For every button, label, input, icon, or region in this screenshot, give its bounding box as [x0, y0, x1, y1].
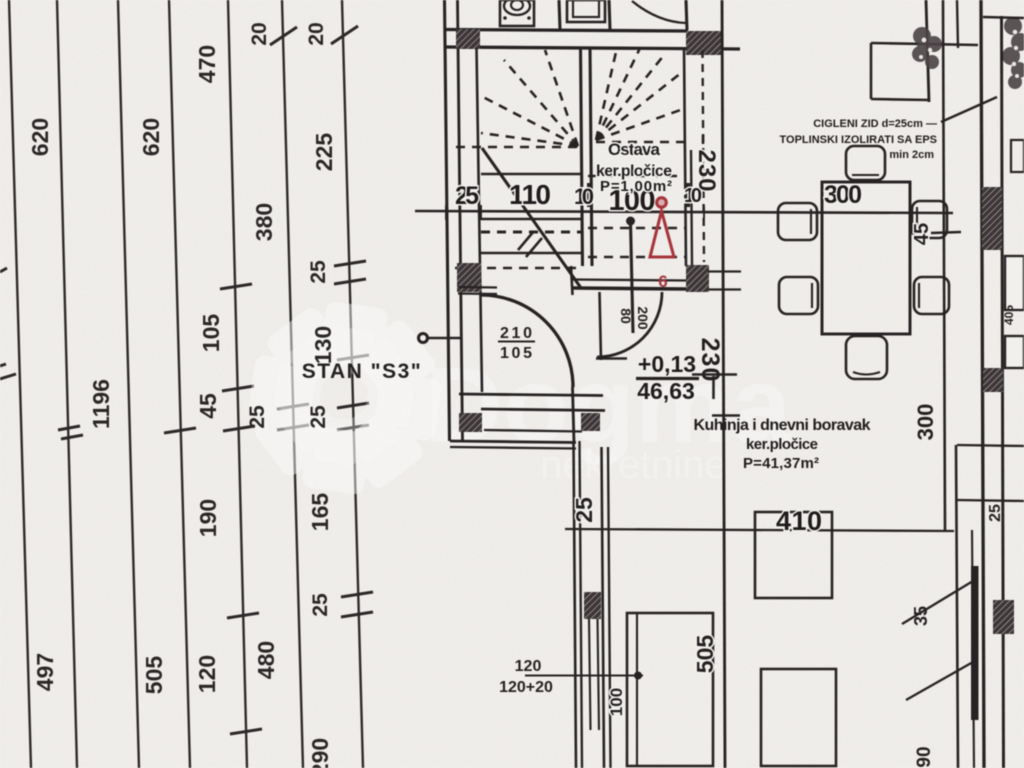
- terrace top line: [871, 43, 978, 45]
- hatch block top-right: [686, 31, 721, 55]
- door1 arc: [481, 295, 573, 387]
- west wall lower line 4: [608, 447, 611, 768]
- hatch block right wall 3: [993, 600, 1014, 634]
- west wall lower line 2: [580, 441, 583, 768]
- stair dashed right y257: [588, 256, 686, 259]
- stair winder ray R4: [596, 73, 681, 140]
- tick L7 y614: [341, 612, 373, 617]
- stair dashed mid left: [456, 146, 580, 149]
- window box right 1: [1005, 256, 1024, 310]
- tick L5 y732: [230, 729, 262, 734]
- right interior vertical x943: [943, 0, 945, 530]
- dashed vertical right of stairs: [703, 50, 705, 262]
- section marker circle: [657, 198, 667, 208]
- tick L5 y388: [222, 386, 254, 391]
- watermark flower inner pass: [274, 326, 414, 466]
- plant blob 1: [912, 27, 942, 69]
- window box right 2: [1005, 336, 1024, 368]
- wall left outer line: [445, 0, 450, 441]
- tick L7 top slash: [331, 26, 358, 44]
- hatch block wall right end: [686, 265, 709, 292]
- stair winder ray L3: [504, 60, 578, 146]
- wall stub y272: [708, 270, 741, 272]
- node dot with leader: [419, 334, 428, 343]
- dining table: [822, 182, 910, 334]
- kitchen counter inner line: [636, 613, 638, 766]
- scan artifact wisp 1: [0, 268, 7, 272]
- stair winder ray R1: [596, 52, 616, 140]
- tick L5 y287: [220, 284, 252, 289]
- door2 leaf: [631, 222, 634, 333]
- tick L6 y407: [277, 404, 309, 409]
- stair tread 3: [481, 252, 581, 255]
- thick tick x589: [587, 183, 592, 207]
- terrace left line: [870, 43, 873, 99]
- hatch block top-left: [456, 29, 480, 49]
- right interior vertical x973: [972, 530, 974, 768]
- wall y288 left segment upper: [458, 286, 497, 289]
- tick L7 y406: [337, 403, 369, 408]
- wire dimension line L6: [282, 0, 303, 768]
- tick 45 lower: [931, 232, 961, 233]
- stair winder ray R3: [596, 55, 664, 140]
- hatch block right wall 1: [982, 187, 1002, 250]
- stair dashed left y232: [481, 230, 581, 233]
- door2 bottom stub: [596, 357, 627, 359]
- tick on x723 chain y415: [712, 414, 740, 417]
- watermark logo flower: [248, 301, 443, 496]
- west wall lower line 1: [574, 441, 577, 768]
- junction tick x446: [445, 205, 447, 220]
- break mark L2: [58, 426, 80, 430]
- stair right wall: [684, 48, 686, 266]
- tick L7 y264: [334, 261, 366, 266]
- dim 120 end dot: [634, 672, 642, 680]
- wire dimension line L3: [118, 0, 139, 768]
- hatch block stair bottom-left: [457, 263, 481, 292]
- wall stub y289: [708, 288, 741, 290]
- hall lower wall line a: [459, 394, 603, 396]
- window box right 0: [1011, 140, 1024, 172]
- tick L7 y427: [337, 425, 369, 430]
- wire dimension line L4: [169, 0, 190, 768]
- sink: [567, 0, 605, 22]
- right wall outer line: [981, 0, 984, 768]
- hatch block west wall: [584, 592, 601, 619]
- kitchen counter rect: [627, 613, 713, 766]
- insulation leader: [941, 97, 997, 122]
- long interior vertical x723: [722, 0, 725, 768]
- wall stub between fixtures 1: [559, 0, 560, 29]
- stair arrow feather 2: [526, 238, 542, 257]
- main horizontal line y213: [415, 211, 953, 213]
- step rect bottom line: [957, 500, 1024, 501]
- stair winder ray L2: [483, 97, 578, 146]
- junction tick x704: [703, 206, 705, 219]
- right wall top line: [983, 17, 1024, 18]
- stair dashed bottom left: [455, 267, 580, 270]
- wall top band upper line: [444, 30, 688, 32]
- section marker triangle: [650, 211, 674, 257]
- tick L7 y595: [341, 592, 373, 597]
- door1 fraction line: [498, 340, 535, 342]
- corner wall line y447: [450, 447, 576, 449]
- wall y279 upper right segment: [572, 280, 687, 281]
- step rect top line: [957, 445, 1024, 446]
- terrace wall vertical: [926, 0, 929, 102]
- stair divider wall line b: [590, 48, 592, 266]
- stair winder ray R5: [596, 108, 686, 140]
- tick L6 y427: [277, 425, 309, 430]
- tick L7 y358: [337, 355, 369, 360]
- tick L4 y431: [164, 428, 196, 433]
- door2 arc: [597, 292, 662, 357]
- terrace right inner wall stub: [957, 0, 958, 48]
- chair left 2: [779, 277, 818, 314]
- corner wall line y441: [450, 441, 576, 443]
- door swing top: [632, 1, 686, 23]
- thick tick x687: [685, 183, 690, 207]
- window diagonal 1: [902, 581, 973, 624]
- right wall inner line: [1002, 16, 1004, 768]
- wall y288 right segment lower: [572, 288, 687, 289]
- window line in west wall b: [598, 619, 600, 730]
- tick L5 y429: [223, 426, 255, 431]
- chair right 1: [912, 201, 947, 238]
- stair dashed right y176: [588, 175, 686, 178]
- tick L5 y615: [227, 613, 259, 618]
- tick L7 y282: [334, 279, 366, 284]
- rect 410: [755, 512, 832, 598]
- chair left 1: [778, 203, 817, 240]
- door1 leaf: [573, 387, 575, 443]
- wall left inner line: [458, 0, 463, 441]
- wire dimension line L2: [57, 0, 77, 768]
- right interior vertical x957: [956, 445, 958, 768]
- stair dashed mid right: [596, 141, 686, 144]
- terrace bottom line: [871, 99, 929, 100]
- level mark underline: [636, 377, 699, 380]
- hall wall bottom line: [484, 430, 582, 432]
- stair winder ray L4: [545, 50, 578, 146]
- chair right 2: [914, 277, 949, 314]
- hall lower wall line b: [481, 409, 605, 411]
- tick L6 top slash: [270, 27, 297, 45]
- wall top band lower line: [444, 47, 740, 49]
- stair tread 1: [481, 173, 581, 176]
- stair right wall inner short: [691, 150, 692, 265]
- wall stub between fixtures 2: [609, 0, 610, 29]
- hatch block hall left: [459, 413, 482, 432]
- wire dimension line L1: [9, 0, 31, 768]
- tick on x723 chain y374: [692, 373, 737, 376]
- chair bottom: [846, 336, 887, 379]
- stair arrow feather 1: [518, 231, 534, 250]
- window diagonal 2: [906, 662, 973, 700]
- window line in west wall a: [589, 619, 591, 730]
- stair winder ray R2: [596, 48, 640, 140]
- door2 jamb: [600, 292, 602, 360]
- wire dimension line L7: [342, 0, 363, 768]
- right wall bar: [971, 566, 979, 720]
- tick stub x713 below: [712, 376, 715, 399]
- stair tread 2: [481, 218, 581, 221]
- stair left room inner wall: [477, 48, 483, 392]
- sofa rect: [761, 669, 836, 766]
- hatch block hall right: [581, 413, 600, 431]
- scan artifact wisp 2: [0, 364, 6, 366]
- wall stub right of arc: [686, 0, 687, 30]
- stair arrow: [482, 148, 581, 288]
- junction tick x481: [480, 205, 482, 220]
- toilet: [500, 0, 534, 26]
- wire dimension line L5: [228, 0, 247, 768]
- stair dashed right y228: [588, 227, 686, 230]
- door1 right jamb: [571, 266, 573, 295]
- chair top: [846, 146, 885, 180]
- tick L1: [0, 374, 16, 379]
- plant blob 2: [1002, 17, 1024, 89]
- stair winder ray L1: [481, 133, 578, 146]
- hatch block right wall 2: [983, 368, 1003, 392]
- door2 hinge dot: [626, 217, 635, 226]
- dim 120 line: [525, 674, 643, 676]
- node leader line: [428, 337, 460, 340]
- stair divider wall line a: [581, 48, 583, 266]
- wall y294 left segment lower: [458, 292, 497, 295]
- long horizontal line y530: [565, 529, 954, 531]
- tick stub x701 above upper 230: [702, 135, 705, 144]
- west wall lower line 3: [602, 447, 605, 768]
